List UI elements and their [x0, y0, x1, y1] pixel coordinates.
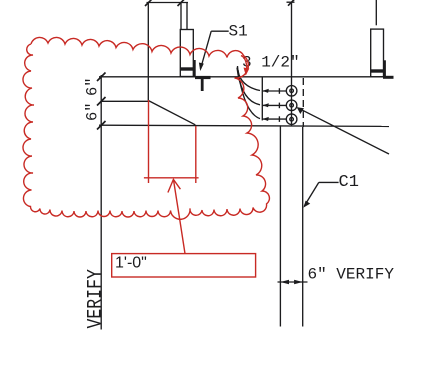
svg-text:1'-0": 1'-0"	[115, 255, 147, 272]
wire column face left	[279, 125, 281, 326]
dimension 6in verify line	[278, 280, 308, 284]
dimension extension vertical left	[100, 75, 102, 330]
arrowhead fan 2	[263, 103, 269, 107]
leader S1	[199, 31, 229, 71]
red note box	[112, 254, 256, 277]
highlight rect bottom side	[144, 177, 199, 179]
highlight rect left side	[148, 100, 150, 183]
arrowhead fan 1	[263, 89, 269, 93]
leader C1	[303, 182, 338, 207]
bolt leader line 3	[262, 118, 286, 120]
highlight rect right side	[195, 126, 197, 183]
wire stub at column mid top	[287, 1, 295, 3]
svg-text:3 1/2": 3 1/2"	[242, 54, 300, 72]
bolt circle 2	[286, 100, 297, 111]
long leader to middle bolt	[297, 107, 389, 154]
bolt circle 1	[286, 86, 297, 97]
leader fan arc 2	[237, 68, 260, 105]
anchor bolt B1 sleeve	[180, 30, 193, 77]
anchor bolt B2 side bar	[383, 60, 386, 77]
revision cloud end curl	[241, 56, 249, 76]
svg-text:6": 6"	[84, 102, 102, 121]
anchor bolt B2 foot	[383, 76, 394, 79]
bolt leader line 1	[262, 90, 286, 92]
svg-text:VERIFY: VERIFY	[83, 269, 107, 328]
wire column face right	[302, 127, 304, 327]
leader fan arc 1	[238, 66, 261, 91]
node tick at column top left	[145, 0, 152, 6]
wire diagonal bent plate	[148, 101, 195, 125]
extension line bolt gauge	[261, 77, 263, 120]
dim tick 1	[97, 73, 106, 82]
svg-text:C1: C1	[339, 173, 359, 192]
tick on leader 3	[278, 116, 280, 122]
svg-text:S1: S1	[229, 23, 248, 41]
svg-text:6": 6"	[84, 77, 102, 96]
wire column line mid	[291, 2, 293, 126]
red leader arrow shaft	[174, 181, 185, 254]
tick on leader 1	[278, 88, 280, 94]
tick on leader 2	[278, 103, 280, 109]
svg-text:6" VERIFY: 6" VERIFY	[308, 266, 395, 284]
node tick at bolt rod top	[178, 0, 185, 6]
wire column line left	[147, 3, 149, 101]
anchor bolt B1 rod	[181, 3, 187, 30]
wire main bearing line 2	[99, 125, 389, 126]
leader fan arc 3	[238, 70, 260, 119]
node tick at column mid top	[288, 0, 295, 6]
dim tick 2	[97, 97, 106, 106]
wire top ledger line	[147, 2, 189, 4]
anchor bolt B2 plate washer	[371, 69, 384, 72]
dimension extension y=101	[101, 100, 148, 102]
anchor bolt B1 side bar	[193, 60, 196, 77]
revision cloud	[23, 37, 269, 219]
wire main bearing line 1	[99, 76, 390, 78]
dim tick 3	[97, 121, 106, 130]
bolt leader line 2	[262, 104, 286, 106]
hidden centerline dashed	[302, 78, 304, 127]
arrowhead fan 3	[263, 117, 269, 121]
red arrowhead open	[168, 179, 181, 192]
anchor bolt B2 rod	[375, 0, 377, 25]
anchor bolt B2 sleeve	[371, 29, 384, 77]
bolt circle 3	[286, 114, 297, 125]
weld stem below line at B1	[195, 78, 211, 92]
anchor bolt B1 plate washer	[180, 67, 193, 70]
